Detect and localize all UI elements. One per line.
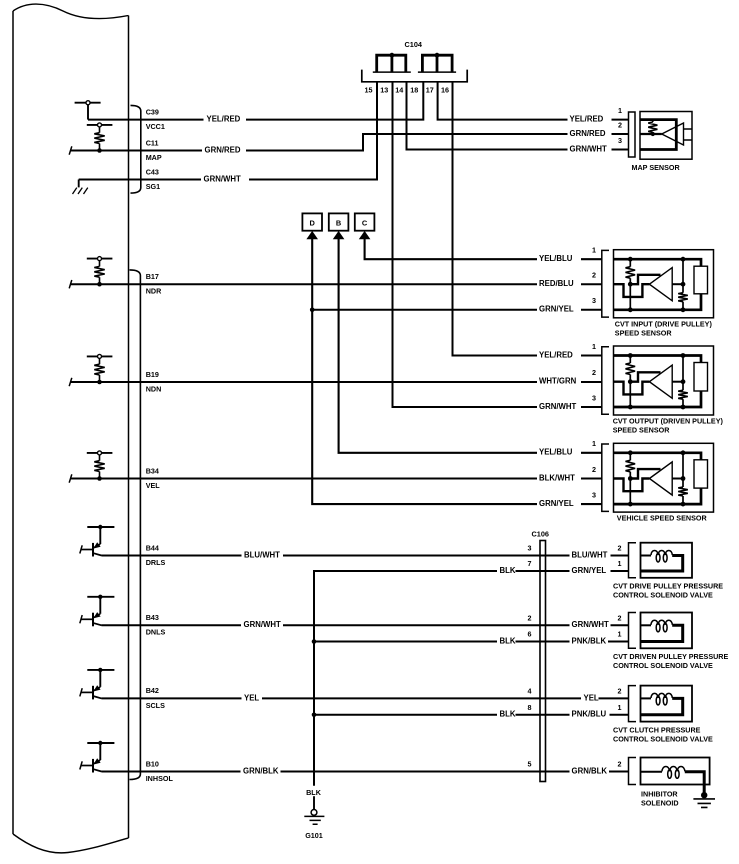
MAP sensor output stubs [684,129,693,140]
vehicle speed sensor junction dot left x630 y452 [628,450,633,455]
wire label PNK/BLU (solenoid3 pin1) [570,710,610,719]
vehicle speed sensor right resistor [682,453,684,487]
PCM body torn bottom edge [13,834,129,853]
vehicle speed sensor amp output [672,478,683,480]
svg-text:3: 3 [618,136,622,145]
svg-text:GRN/BLK: GRN/BLK [572,766,608,775]
svg-text:GRN/YEL: GRN/YEL [572,566,607,575]
svg-text:5: 5 [528,760,532,769]
vehicle speed sensor box [614,443,714,512]
svg-text:2: 2 [618,544,622,553]
svg-text:GRN/BLK: GRN/BLK [243,766,279,775]
wire label GRN/WHT (CVT output pin3) [537,403,581,412]
svg-text:2: 2 [528,613,532,622]
wire continuation slash C11 [69,146,72,154]
wire label GRN/BLK (B10) [241,767,281,776]
wire continuation slash Q-B43 base [80,615,82,623]
CVT input speed sensor divider tap path [630,275,660,284]
svg-text:2: 2 [618,121,622,130]
junction dot B34 row [97,476,102,481]
CVT drive pulley pressure control solenoid valve coil return circuit [641,556,683,572]
off-page connector D box [302,213,322,230]
svg-text:CVT DRIVE PULLEY PRESSURE: CVT DRIVE PULLEY PRESSURE [613,582,723,591]
junction dot supply bar Q-B42 [98,668,102,672]
junction dot B19 row [97,380,102,385]
MAP sensor signal wire [640,133,662,135]
svg-text:GRN/YEL: GRN/YEL [539,305,574,314]
transistor Q-B10 (driver) [99,743,101,760]
CVT output speed sensor right resistor [682,356,684,391]
wire label YEL (B42) [242,694,263,703]
vehicle speed sensor divider resistor [629,453,631,461]
wire label WHT/GRN (CVT output pin2) [537,377,581,386]
CVT output speed sensor connector bracket [602,347,609,415]
svg-text:2: 2 [618,613,622,622]
wire B42 SCLS YEL to solenoid 3 pin 2 [102,697,629,699]
G101 ground circle [311,810,317,816]
inhibitor solenoid coil return [685,772,704,795]
svg-text:C11: C11 [146,138,159,147]
off-page connector C box [355,213,375,230]
MAP sensor internal resistor [652,120,654,122]
svg-text:16: 16 [441,85,449,94]
internal node circle B17 [98,257,102,261]
wire C104 pin 13 GRN/WHT to CVT output sensor pin 3 [393,82,602,407]
CVT input speed sensor junction dot left x630 y259 [628,257,633,262]
CVT output speed sensor signal input path [614,382,650,395]
CVT input speed sensor right resistor [682,259,684,293]
PCM control module body (right edge) [128,16,130,839]
svg-text:YEL: YEL [584,693,599,702]
internal supply bar at C39 [75,102,101,104]
CVT input speed sensor supply rail [614,259,702,266]
CVT input speed sensor junction dot left x630 y284 [628,282,633,287]
svg-text:3: 3 [592,393,596,402]
svg-text:B10: B10 [146,759,159,768]
vehicle speed sensor divider tap path [630,469,660,478]
svg-text:1: 1 [618,106,622,115]
PCM connector bracket (B17-INHSOL group) [130,270,141,780]
CVT output speed sensor junction dot left x630 y381 [628,379,633,384]
CVT input speed sensor amplifier triangle [649,268,672,301]
wire label GRN/WHT (C43) [201,175,249,184]
svg-text:B43: B43 [146,613,159,622]
svg-text:13: 13 [380,85,388,94]
internal node circle B34 [98,451,102,455]
svg-text:B34: B34 [146,466,159,475]
svg-text:B: B [336,218,341,227]
wire B10 INHSOL GRN/BLK to inhibitor solenoid pin 2 [102,771,629,773]
wire C104 pin 14 GRN/WHT to MAP sensor pin 3 [407,82,629,150]
vehicle speed sensor ground rail [614,488,702,504]
svg-text:3: 3 [592,491,596,500]
wire label BLK (solenoid2 ground) [497,637,516,646]
wire label GRN/RED (MAP pin2) [568,130,612,139]
wire GRN/YEL branch to CVT input sensor pin 3 [312,309,602,311]
wire C104 pin 17 YEL/RED to MAP sensor pin 1 [438,82,629,120]
svg-text:RED/BLU: RED/BLU [539,279,574,288]
svg-text:C106: C106 [532,530,549,539]
svg-text:1: 1 [592,439,596,448]
CVT input speed sensor connector bracket [602,250,609,317]
svg-text:VEHICLE SPEED SENSOR: VEHICLE SPEED SENSOR [617,514,708,523]
wire continuation slash Q-B42 base [80,688,82,696]
wire BLK ground bus from solenoid 1 pin 1 to G101 [314,571,629,786]
off-page connector B box [329,213,349,230]
svg-text:BLU/WHT: BLU/WHT [572,550,608,559]
wire continuation slash Q-B44 base [80,545,82,553]
transistor Q-B43 (driver) [99,597,101,614]
svg-text:MAP SENSOR: MAP SENSOR [632,163,681,172]
wire B44 DRLS BLU/WHT to solenoid 1 pin 2 [102,555,629,557]
svg-text:7: 7 [528,559,532,568]
wire C39 VCC1 YEL/RED to C104 pin 18 [88,82,423,120]
CVT clutch pressure control solenoid valve coil loops [651,693,672,698]
PCM connector bracket (C39-SG1 group) [131,105,141,193]
wire label YEL/BLU (VSS pin1) [537,448,581,457]
CVT drive pulley pressure control solenoid valve connector bracket [629,543,637,578]
wire label YEL/BLU (CVT input pin1) [537,255,581,264]
wire label YEL/RED (CVT output pin1) [537,351,581,360]
CVT driven pulley pressure control solenoid valve box [641,613,693,649]
vehicle speed sensor junction dot right x683 y478 [681,476,686,481]
internal resistor B34 pull-up [99,455,101,461]
CVT clutch pressure control solenoid valve coil entry wire [641,697,652,699]
wire label YEL/RED (C39) [204,115,247,124]
junction dot GRN/YEL branch at D wire [310,308,315,313]
junction dot C104 left jumper [390,53,395,58]
junction dot C11 row [97,148,102,153]
CVT clutch pressure control solenoid valve box [641,686,693,722]
svg-text:YEL/RED: YEL/RED [207,115,241,124]
wire B43 DNLS GRN/WHT to solenoid 2 pin 2 [102,624,629,626]
svg-text:2: 2 [618,686,622,695]
svg-text:BLU/WHT: BLU/WHT [244,550,280,559]
PCM control module body (left edge) [12,11,14,834]
internal resistor B19 pull-up [99,358,101,364]
vehicle speed sensor junction dot right x683 y504 [681,502,686,507]
internal pull-up supply bar at B17 [87,258,113,260]
internal chassis ground at SG1 [78,180,80,188]
svg-text:BLK/WHT: BLK/WHT [539,473,575,482]
svg-text:SOLENOID: SOLENOID [641,799,679,808]
wire continuation slash B17 [69,280,72,288]
inhibitor solenoid ground bars [693,799,715,808]
svg-text:2: 2 [592,465,596,474]
wire B17 NDR RED/BLU to CVT input sensor pin 2 [70,283,602,285]
svg-text:YEL/RED: YEL/RED [539,350,573,359]
svg-text:BLK: BLK [500,566,516,575]
MAP sensor box [640,112,692,160]
svg-text:1: 1 [618,630,622,639]
internal node circle B19 [98,354,102,358]
svg-text:1: 1 [618,559,622,568]
internal node circle C11 [98,123,102,127]
svg-text:8: 8 [528,703,532,712]
CVT output speed sensor junction dot right x683 y407 [681,405,686,410]
svg-text:3: 3 [592,296,596,305]
connector C104 jumper bar pins 15-13-14 [377,55,406,71]
CVT output speed sensor load resistor box [694,363,708,392]
wire label BLU/WHT (solenoid1 pin2) [570,551,611,560]
off-page connector D arrow [306,231,318,239]
wire label YEL (solenoid3 pin2) [581,694,599,703]
internal supply bar Q-B42 [87,669,114,671]
svg-text:INHSOL: INHSOL [146,774,174,783]
svg-text:YEL: YEL [244,693,259,702]
CVT input speed sensor amp output [672,283,683,285]
wire continuation slash B34 [69,474,72,482]
CVT output speed sensor amp output [672,381,683,383]
svg-text:B44: B44 [146,543,159,552]
svg-text:2: 2 [592,368,596,377]
CVT output speed sensor junction dot right x683 y381 [681,379,686,384]
CVT output speed sensor junction dot left x630 y355 [628,353,633,358]
CVT output speed sensor supply rail [614,356,702,363]
wire label RED/BLU (CVT input pin2) [537,280,581,289]
CVT input speed sensor box [614,250,714,318]
vehicle speed sensor signal input path [614,479,650,492]
wire C43 SG1 GRN/WHT to C104 pin 15 [79,82,377,180]
svg-text:CVT OUTPUT (DRIVEN PULLEY): CVT OUTPUT (DRIVEN PULLEY) [613,417,724,426]
svg-text:CVT INPUT (DRIVE PULLEY): CVT INPUT (DRIVE PULLEY) [615,319,713,328]
internal pull-up supply bar at B34 [87,452,113,454]
svg-text:BLK: BLK [500,710,516,719]
svg-text:G101: G101 [305,831,323,840]
wire label BLK (solenoid1 ground) [497,567,516,576]
svg-text:CVT CLUTCH PRESSURE: CVT CLUTCH PRESSURE [613,725,701,734]
inhibitor solenoid connector bracket [629,758,637,785]
svg-text:YEL/RED: YEL/RED [570,115,604,124]
vehicle speed sensor junction dot left x630 y478 [628,476,633,481]
svg-text:BLK: BLK [500,636,516,645]
wire label GRN/RED (C11) [202,146,246,155]
junction dot MAP resistor to signal [651,132,655,136]
CVT output speed sensor junction dot left x630 y407 [628,405,633,410]
CVT output speed sensor divider resistor [629,356,631,364]
wire C104 pin 16 YEL/RED to CVT output sensor pin 1 [453,82,602,356]
CVT input speed sensor load resistor box [694,266,708,294]
connector C104 housing [362,70,467,82]
CVT input speed sensor junction dot left x630 y309 [628,307,633,312]
svg-text:B17: B17 [146,272,159,281]
svg-text:CVT DRIVEN PULLEY PRESSURE: CVT DRIVEN PULLEY PRESSURE [613,652,728,661]
internal resistor B17 pull-up [99,261,101,267]
wire label GRN/YEL (CVT input pin3) [537,305,581,314]
svg-text:17: 17 [426,85,434,94]
inhibitor solenoid box [641,758,710,785]
svg-text:GRN/RED: GRN/RED [570,129,606,138]
wire label GRN/WHT (MAP pin3) [568,145,612,154]
CVT input speed sensor junction dot right x683 y309 [681,307,686,312]
internal pull-up supply bar at C11 [87,124,113,126]
wire label GRN/YEL (VSS pin3) [537,500,581,509]
CVT input speed sensor divider resistor [629,259,631,267]
wire connector B YEL/BLU down to vehicle speed sensor pin 1 [339,233,602,453]
wire label BLK (solenoid3 ground) [497,710,516,719]
connector C104 jumper bar pins 18-17-16 [422,55,452,71]
wire BLK from solenoid 3 pin 1 [314,714,629,716]
vehicle speed sensor junction dot right x683 y452 [681,450,686,455]
svg-text:1: 1 [592,342,596,351]
svg-text:2: 2 [592,271,596,280]
svg-text:GRN/WHT: GRN/WHT [204,174,241,183]
junction dot B17 row [97,282,102,287]
chassis ground hatches SG1 [73,188,88,194]
svg-text:MAP: MAP [146,153,162,162]
wire label GRN/YEL (solenoid1 pin1) [570,567,611,576]
CVT output speed sensor junction dot right x683 y355 [681,353,686,358]
CVT input speed sensor junction dot right x683 y284 [681,282,686,287]
CVT input speed sensor signal input path [614,284,650,297]
internal pull-up supply bar at B19 [87,355,113,357]
svg-text:GRN/WHT: GRN/WHT [244,620,281,629]
vehicle speed sensor junction dot left x630 y504 [628,502,633,507]
svg-text:3: 3 [528,544,532,553]
svg-text:VCC1: VCC1 [146,122,165,131]
CVT driven pulley pressure control solenoid valve coil entry wire [641,624,652,626]
connector C104 socket line right [418,71,456,73]
wire label PNK/BLK (solenoid2 pin1) [570,637,609,646]
svg-text:INHIBITOR: INHIBITOR [641,790,678,799]
wire connector D GRN/YEL down to vehicle speed sensor pin 3 [312,233,602,504]
MAP sensor supply loop [640,120,676,150]
CVT output speed sensor divider tap path [630,372,660,381]
wire label GRN/WHT (solenoid2 pin2) [570,621,611,630]
connector C106 housing [540,541,546,782]
svg-text:DRLS: DRLS [146,558,166,567]
svg-text:SG1: SG1 [146,182,160,191]
CVT drive pulley pressure control solenoid valve coil entry wire [641,555,652,557]
svg-text:2: 2 [618,760,622,769]
svg-text:SPEED SENSOR: SPEED SENSOR [615,328,673,337]
internal supply bar Q-B43 [87,596,114,598]
svg-text:14: 14 [395,85,403,94]
svg-text:1: 1 [618,703,622,712]
vehicle speed sensor supply rail [614,453,702,460]
svg-text:C104: C104 [405,40,423,49]
junction dot BLK bus solenoid 3 [312,713,317,718]
svg-text:6: 6 [528,630,532,639]
svg-text:GRN/WHT: GRN/WHT [570,144,607,153]
svg-text:NDR: NDR [146,287,162,296]
CVT driven pulley pressure control solenoid valve coil return circuit [641,625,683,641]
off-page connector C arrow [359,231,371,239]
wire label GRN/BLK (inhibitor pin2) [570,767,610,776]
svg-text:GRN/WHT: GRN/WHT [539,402,576,411]
svg-text:15: 15 [365,85,373,94]
svg-text:GRN/YEL: GRN/YEL [539,499,574,508]
svg-text:GRN/RED: GRN/RED [205,145,241,154]
vehicle speed sensor load resistor box [694,460,708,488]
svg-text:CONTROL SOLENOID VALVE: CONTROL SOLENOID VALVE [613,591,713,600]
svg-text:4: 4 [528,686,532,695]
wire continuation slash Q-B10 base [80,761,82,769]
junction dot supply bar Q-B44 [98,525,102,529]
svg-text:1: 1 [592,246,596,255]
off-page connector B arrow [333,231,345,239]
CVT driven pulley pressure control solenoid valve coil loops [651,620,672,625]
svg-text:DNLS: DNLS [146,628,166,637]
internal supply bar Q-B10 [87,742,114,744]
junction dot supply bar Q-B43 [98,595,102,599]
CVT output speed sensor box [614,346,714,415]
svg-text:C43: C43 [146,167,159,176]
CVT clutch pressure control solenoid valve coil return circuit [641,698,683,714]
CVT output speed sensor ground rail [614,391,702,407]
svg-text:SCLS: SCLS [146,701,165,710]
inhibitor solenoid coil loops [662,766,685,771]
svg-text:C39: C39 [146,107,159,116]
MAP sensor connector [629,112,636,157]
internal node circle C39 [86,101,90,105]
svg-text:VEL: VEL [146,481,161,490]
connector C104 socket line left [373,71,411,73]
wire BLK from solenoid 2 pin 1 [314,641,629,643]
PCM body torn top edge [13,4,129,18]
wire C11 MAP GRN/RED to MAP sensor pin 2 [70,134,629,151]
CVT driven pulley pressure control solenoid valve connector bracket [629,613,637,649]
wire label GRN/WHT (B43) [241,621,283,630]
CVT output speed sensor amplifier triangle [649,365,672,398]
svg-text:CONTROL SOLENOID VALVE: CONTROL SOLENOID VALVE [613,661,713,670]
wire label BLU/WHT (B44) [242,551,284,560]
svg-text:CONTROL SOLENOID VALVE: CONTROL SOLENOID VALVE [613,734,713,743]
svg-text:D: D [310,218,316,227]
svg-text:18: 18 [410,85,418,94]
inhibitor solenoid ground [701,792,707,798]
internal supply bar Q-B44 [87,526,114,528]
MAP sensor amplifier triangle [662,123,684,145]
svg-text:B19: B19 [146,370,159,379]
CVT input speed sensor junction dot right x683 y259 [681,257,686,262]
wire B19 NDN WHT/GRN to CVT output sensor pin 2 [70,381,602,383]
CVT drive pulley pressure control solenoid valve box [641,543,693,578]
svg-text:PNK/BLU: PNK/BLU [572,710,607,719]
wire continuation slash B19 [69,378,72,386]
vehicle speed sensor connector bracket [602,444,609,511]
internal wire C39 [87,105,89,120]
wire label YEL/RED (MAP pin1) [568,115,612,124]
transistor Q-B44 (driver) [99,527,101,544]
wire BLK stub to G101 ground [313,796,315,810]
CVT input speed sensor ground rail [614,294,702,310]
junction dot C104 right jumper [435,53,440,58]
svg-text:GRN/WHT: GRN/WHT [572,620,609,629]
wire connector C YEL/BLU down to CVT input sensor pin 1 [365,233,602,259]
svg-text:B42: B42 [146,686,159,695]
svg-text:YEL/BLU: YEL/BLU [539,254,573,263]
wire label BLK/WHT (VSS pin2) [537,474,581,483]
internal resistor C11 pull-up [99,127,101,133]
G101 ground bars [304,816,324,824]
svg-text:C: C [362,218,368,227]
CVT clutch pressure control solenoid valve connector bracket [629,686,637,722]
inhibitor solenoid coil entry wire [641,771,663,773]
transistor Q-B42 (driver) [99,670,101,687]
svg-text:PNK/BLK: PNK/BLK [572,636,607,645]
svg-text:BLK: BLK [306,788,322,797]
junction dot BLK bus solenoid 2 [312,639,317,644]
junction dot supply bar Q-B10 [98,741,102,745]
svg-text:SPEED SENSOR: SPEED SENSOR [613,426,671,435]
svg-text:YEL/BLU: YEL/BLU [539,448,573,457]
wire B34 VEL BLK/WHT to vehicle speed sensor pin 2 [70,478,602,480]
vehicle speed sensor amplifier triangle [649,462,672,495]
svg-text:NDN: NDN [146,384,162,393]
CVT drive pulley pressure control solenoid valve coil loops [651,550,672,555]
svg-text:WHT/GRN: WHT/GRN [539,377,577,386]
